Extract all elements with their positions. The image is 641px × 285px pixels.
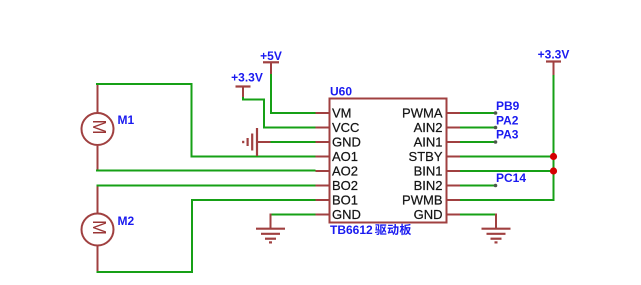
ground bottom-left xyxy=(256,214,285,243)
svg-text:AO1: AO1 xyxy=(332,149,358,164)
svg-text:PC14: PC14 xyxy=(496,171,526,185)
svg-text:+5V: +5V xyxy=(260,49,282,63)
pin 1 VM stub xyxy=(316,112,330,114)
pin AIN1 stub xyxy=(447,141,461,143)
svg-text:M2: M2 xyxy=(118,214,135,228)
node PA3 wire end xyxy=(494,140,498,144)
svg-text:+3.3V: +3.3V xyxy=(231,71,263,85)
svg-text:+3.3V: +3.3V xyxy=(538,48,570,62)
power +3.3V middle xyxy=(231,71,263,99)
svg-text:BIN2: BIN2 xyxy=(414,178,443,193)
svg-text:PWMA: PWMA xyxy=(402,106,443,121)
svg-text:PA3: PA3 xyxy=(496,128,519,142)
pin 2 VCC stub xyxy=(316,127,330,129)
svg-text:GND: GND xyxy=(332,135,361,150)
svg-text:PWMB: PWMB xyxy=(402,193,442,208)
wire M2 bottom red segment xyxy=(97,245,99,272)
pin 8 GND stub xyxy=(316,214,330,216)
svg-text:M1: M1 xyxy=(118,113,135,127)
svg-text:GND: GND xyxy=(414,207,443,222)
motor M2 xyxy=(82,214,114,246)
net label PC14 xyxy=(496,171,526,185)
svg-text:AIN1: AIN1 xyxy=(414,135,443,150)
node PC14 wire end xyxy=(494,184,498,188)
pin 7 BO1 stub xyxy=(316,199,330,201)
label M2 xyxy=(118,214,135,228)
svg-text:BO2: BO2 xyxy=(332,178,358,193)
pin 5 AO2 stub xyxy=(316,170,330,172)
op-amp U60 chip body xyxy=(330,99,447,223)
svg-text:AO2: AO2 xyxy=(332,164,358,179)
wire +5V to VM xyxy=(271,74,316,113)
pin name AO2 xyxy=(332,164,358,179)
wire AIN2 to PA2 xyxy=(460,127,496,129)
svg-text:GND: GND xyxy=(332,207,361,222)
wire GND right xyxy=(460,214,496,216)
wire PWMB to +3.3V rail xyxy=(460,170,554,200)
wire M2 top to BO2 xyxy=(97,185,316,187)
motor M1 xyxy=(82,113,114,145)
junction dot BIN1 xyxy=(550,167,557,174)
svg-text:TB6612: TB6612 xyxy=(330,223,373,237)
pin name BIN1 xyxy=(414,164,443,179)
svg-text:STBY: STBY xyxy=(409,149,443,164)
svg-text:M: M xyxy=(89,220,109,235)
ground sideways at GND pin 3 xyxy=(243,128,271,156)
pin name BO2 xyxy=(332,178,358,193)
wire BIN2 to PC14 xyxy=(460,185,496,187)
net label PB9 xyxy=(496,99,520,113)
pin name GND bottom-left xyxy=(332,207,361,222)
pin 4 AO1 stub xyxy=(316,156,330,158)
pin name PWMB xyxy=(402,193,442,208)
pin STBY stub xyxy=(447,156,461,158)
pin 6 BO2 stub xyxy=(316,185,330,187)
svg-text:BO1: BO1 xyxy=(332,193,358,208)
wire M1 top to AO1 xyxy=(96,84,316,157)
wire GND bottom-left xyxy=(271,214,316,216)
svg-text:PB9: PB9 xyxy=(496,99,520,113)
pin name AO1 xyxy=(332,149,358,164)
pin name PWMA xyxy=(402,106,443,121)
wire BIN1 to +3.3V rail xyxy=(460,170,554,172)
svg-text:BIN1: BIN1 xyxy=(414,164,443,179)
wire +3.3V to VCC xyxy=(243,97,316,128)
pin 3 GND stub xyxy=(316,141,330,143)
pin AIN2 stub xyxy=(447,127,461,129)
wire PWMA to PB9 xyxy=(460,112,496,114)
pin name GND xyxy=(332,135,361,150)
wire M2 top red segment xyxy=(97,186,99,215)
pin BIN2 stub xyxy=(447,185,461,187)
wire STBY to +3.3V rail xyxy=(460,156,554,158)
wire M1 top red segment xyxy=(97,84,99,114)
wire ground to GND pin 3 xyxy=(271,141,316,143)
pin name BO1 xyxy=(332,193,358,208)
power +5V xyxy=(260,49,282,75)
svg-text:U60: U60 xyxy=(330,85,352,99)
pin name VM xyxy=(332,106,352,121)
svg-text:VCC: VCC xyxy=(332,120,359,135)
pin name AIN2 xyxy=(414,120,443,135)
ground bottom-right xyxy=(482,214,511,243)
pin name AIN1 xyxy=(414,135,443,150)
svg-text:PA2: PA2 xyxy=(496,114,519,128)
pin name STBY xyxy=(409,149,443,164)
wire +3.3V rail vertical xyxy=(553,75,555,200)
wire M1 bottom to AO2 xyxy=(96,170,316,172)
label M1 xyxy=(118,113,135,127)
wire AIN1 to PA3 xyxy=(460,141,496,143)
value label TB6612驱动板 xyxy=(330,223,411,237)
designator U60 xyxy=(330,85,352,99)
svg-text:M: M xyxy=(89,120,109,135)
net label PA2 xyxy=(496,114,519,128)
net label PA3 xyxy=(496,128,519,142)
power +3.3V right xyxy=(538,48,570,77)
node PB9 wire end xyxy=(494,111,498,115)
wire M1 bottom red segment xyxy=(97,146,99,171)
svg-text:AIN2: AIN2 xyxy=(414,120,443,135)
pin name VCC xyxy=(332,120,359,135)
svg-text:VM: VM xyxy=(332,106,352,121)
pin GND right stub xyxy=(447,214,461,216)
pin name BIN2 xyxy=(414,178,443,193)
wire M2 bottom to BO1 xyxy=(97,200,316,272)
pin PWMA stub xyxy=(447,112,461,114)
pin PWMB stub xyxy=(447,199,461,201)
node PA2 wire end xyxy=(494,126,498,130)
junction dot STBY xyxy=(550,153,557,160)
pin BIN1 stub xyxy=(447,170,461,172)
pin name GND bottom-right xyxy=(414,207,443,222)
